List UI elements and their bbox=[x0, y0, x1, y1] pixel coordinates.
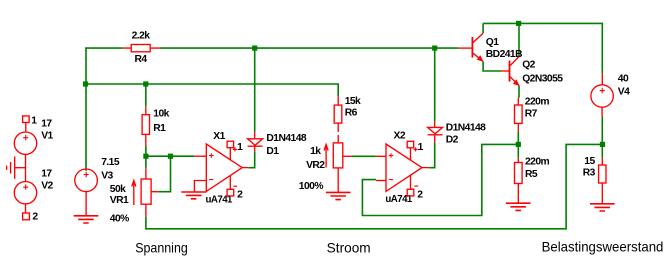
node: junction dot D2 on output rail bbox=[432, 46, 437, 51]
diode D1 bbox=[248, 132, 263, 152]
svg-text:1k: 1k bbox=[310, 146, 321, 157]
pin 1 (X1 V+) bbox=[227, 141, 237, 160]
diode D2 bbox=[428, 122, 443, 143]
wire: D1 drop from rail bbox=[254, 48, 256, 131]
svg-text:1: 1 bbox=[418, 142, 424, 153]
wire: Q1 emitter to Q2 base bbox=[483, 61, 501, 71]
svg-text:V1: V1 bbox=[41, 130, 53, 141]
potentiometer VR1 bbox=[132, 168, 158, 217]
wire: VR2 wiper to X2 plus input bbox=[351, 155, 376, 157]
svg-text:10k: 10k bbox=[153, 108, 169, 119]
svg-text:40%: 40% bbox=[110, 213, 129, 224]
wire: R7 bottom to sense junction bbox=[517, 132, 519, 145]
ground (between V1 and V2, rotated left) bbox=[7, 157, 26, 179]
svg-text:15k: 15k bbox=[345, 96, 361, 107]
resistor R7 bbox=[515, 98, 523, 132]
svg-text:R4: R4 bbox=[135, 54, 148, 65]
svg-text:50k: 50k bbox=[110, 184, 126, 195]
svg-text:VR2: VR2 bbox=[306, 160, 325, 171]
voltage source V2 bbox=[14, 182, 36, 214]
svg-text:Q2: Q2 bbox=[522, 59, 535, 70]
svg-text:R7: R7 bbox=[525, 108, 538, 119]
svg-text:D1: D1 bbox=[266, 146, 279, 157]
ground (R3) bbox=[590, 204, 615, 211]
pin 1 (X2 V+) bbox=[407, 141, 417, 160]
node: junction dot node A at wiper riser bbox=[168, 154, 173, 159]
svg-text:17: 17 bbox=[41, 118, 52, 129]
wire: VR1 top stub bbox=[145, 156, 147, 168]
wire: R1 bottom green stub bbox=[145, 146, 147, 156]
svg-text:V3: V3 bbox=[101, 170, 113, 181]
svg-text:X1: X1 bbox=[213, 131, 225, 142]
transistor Q1 bbox=[458, 33, 483, 61]
op-amp X1 bbox=[194, 144, 248, 192]
svg-text:Q2N3055: Q2N3055 bbox=[522, 73, 563, 84]
port 1 bbox=[23, 116, 30, 132]
ground (X1 minus input) bbox=[181, 192, 206, 199]
svg-text:D2: D2 bbox=[446, 135, 459, 146]
ground (V3) bbox=[74, 216, 99, 223]
ground (R5) bbox=[506, 203, 531, 210]
svg-text:R1: R1 bbox=[153, 123, 166, 134]
svg-text:40: 40 bbox=[618, 74, 629, 85]
svg-text:220m: 220m bbox=[525, 96, 550, 107]
svg-text:1: 1 bbox=[31, 115, 37, 126]
node: junction dot R1 top bbox=[143, 81, 148, 86]
svg-text:Spanning: Spanning bbox=[135, 240, 188, 255]
wire: node A horizontal to X1 plus input bbox=[146, 155, 194, 157]
svg-text:V4: V4 bbox=[618, 87, 630, 98]
wire: y=84 rail to R6 drop bbox=[85, 84, 338, 96]
svg-text:2: 2 bbox=[32, 212, 38, 223]
pin 2 (X1 V-) bbox=[227, 175, 237, 196]
svg-text:7.15: 7.15 bbox=[101, 157, 120, 168]
svg-text:D1N4148: D1N4148 bbox=[446, 123, 486, 134]
transistor Q2 bbox=[501, 57, 519, 86]
wire: load junction down to R3 bbox=[601, 144, 603, 157]
node: junction dot left rail / y84 bbox=[83, 81, 88, 86]
wire: sense junction down to R5 bbox=[517, 144, 519, 157]
resistor R3 bbox=[599, 157, 606, 203]
wire: R4 output rail to Q1 base bbox=[159, 47, 458, 49]
wire: D1 cathode to X1 output bbox=[248, 152, 254, 168]
svg-text:D1N4148: D1N4148 bbox=[266, 133, 306, 144]
pin 2 (X2 V-) bbox=[407, 175, 418, 196]
wire: X2 minus feedback to current sense node bbox=[362, 144, 516, 215]
op-amp X2 bbox=[376, 144, 430, 191]
node: junction dot D1 on output rail bbox=[252, 46, 257, 51]
wire: R1 top drop bbox=[145, 84, 147, 106]
resistor R1 bbox=[142, 106, 149, 146]
wire: bottom feedback rail VR1 to load node bbox=[146, 144, 600, 228]
svg-text:Stroom: Stroom bbox=[327, 241, 371, 256]
node: junction dot node A at R1 bbox=[143, 154, 148, 159]
wire: top rail to V4 bbox=[483, 23, 602, 73]
svg-text:V2: V2 bbox=[41, 181, 53, 192]
wire: Q1 collector riser bbox=[482, 23, 484, 33]
svg-text:2.2k: 2.2k bbox=[132, 31, 151, 42]
node: junction dot load V4/R3 bbox=[600, 142, 605, 147]
svg-text:R5: R5 bbox=[525, 169, 538, 180]
svg-text:Belastingsweerstand: Belastingsweerstand bbox=[542, 239, 664, 254]
node: junction dot collectors top rail bbox=[516, 21, 521, 26]
wire: VR1 wiper riser to node A bbox=[158, 156, 170, 192]
svg-text:X2: X2 bbox=[394, 130, 406, 141]
resistor R6 bbox=[334, 96, 342, 132]
svg-text:1: 1 bbox=[237, 142, 243, 153]
wire: D2 cathode to X2 output bbox=[429, 143, 435, 168]
port 2 bbox=[23, 213, 30, 220]
node: junction dot current sense R7/R5 bbox=[516, 142, 521, 147]
svg-text:2: 2 bbox=[417, 190, 423, 201]
svg-text:220m: 220m bbox=[525, 157, 550, 168]
resistor R4 bbox=[122, 45, 159, 52]
wire: top mid rail into R4 left lead bbox=[85, 47, 122, 49]
wire: Q2 collector riser bbox=[518, 23, 520, 56]
svg-text:17: 17 bbox=[41, 169, 52, 180]
svg-text:Q1: Q1 bbox=[486, 37, 499, 48]
svg-text:15: 15 bbox=[584, 156, 595, 167]
resistor R5 bbox=[515, 158, 523, 203]
svg-text:100%: 100% bbox=[299, 181, 324, 192]
voltage source V1 bbox=[14, 132, 36, 182]
wire: V4 bottom to load junction bbox=[601, 117, 603, 145]
ground (VR2) bbox=[326, 192, 351, 199]
wire: Q2 emitter to R7 bbox=[518, 86, 520, 98]
potentiometer VR2 bbox=[324, 135, 351, 193]
voltage source V3 bbox=[75, 169, 98, 216]
svg-text:VR1: VR1 bbox=[110, 195, 129, 206]
wire: left rail from R4 node down to V3 bbox=[85, 47, 87, 170]
svg-text:2: 2 bbox=[237, 190, 243, 201]
wire: D2 drop from rail bbox=[434, 48, 436, 122]
svg-text:R3: R3 bbox=[583, 168, 596, 179]
voltage source V4 bbox=[591, 73, 613, 117]
svg-text:R6: R6 bbox=[345, 108, 358, 119]
